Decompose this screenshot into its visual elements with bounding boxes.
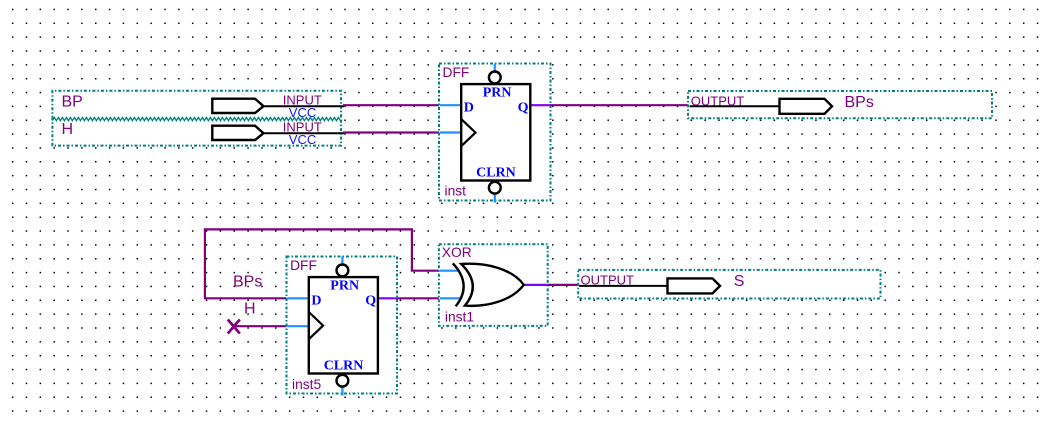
svg-text:VCC: VCC [289,132,316,147]
output pin arrow symbol [668,278,721,293]
Q pin stub [378,297,397,299]
top input pin stub [440,270,460,272]
pin lead line [690,105,780,107]
svg-text:S: S [734,273,745,290]
svg-text:XOR: XOR [442,245,472,260]
wire H dangling segment to inst5 clock [234,325,287,327]
input pin arrow symbol [212,99,263,113]
XOR input back arc [453,263,464,306]
svg-text:DFF: DFF [443,65,470,80]
svg-text:inst1: inst1 [445,310,474,325]
output pin arrow symbol [780,99,833,114]
svg-text:Q: Q [365,294,376,309]
input pin H [52,117,344,147]
clock pin stub [440,131,461,133]
output pin S [578,270,880,299]
svg-text:Q: Q [518,101,529,116]
svg-text:BPs: BPs [233,274,262,291]
clock pin stub [288,325,309,327]
clear bubble [337,375,349,387]
PRN pin stub [341,257,343,265]
CLRN pin stub [341,387,343,396]
Q pin stub [530,104,550,106]
svg-text:D: D [311,294,321,309]
wire BP to DFF inst D input [343,104,440,106]
svg-text:D: D [464,101,474,116]
CLRN pin stub [494,194,496,203]
svg-text:CLRN: CLRN [324,358,364,373]
svg-text:PRN: PRN [483,85,512,100]
wire XOR output to pin S [548,284,579,286]
XOR gate inst1 [439,244,548,326]
svg-text:PRN: PRN [330,278,359,293]
output pin stub [524,284,548,286]
output pin BPs [688,91,992,118]
svg-text:H: H [62,121,74,138]
preset bubble [337,265,349,277]
wire H to DFF inst clock input [343,131,440,133]
D pin stub [440,104,461,106]
PRN pin stub [494,64,496,72]
svg-text:inst5: inst5 [292,377,321,392]
D flip-flop inst (DFF) [439,64,551,203]
input pin arrow symbol [212,126,263,140]
input pin BP [52,91,344,120]
flip-flop body [461,84,530,180]
clock edge triangle [309,312,323,339]
X marker at dangling wire end [228,320,240,334]
svg-text:H: H [244,301,256,318]
wire net BPs: feeds DFF inst5 D input and XOR top input [205,229,439,298]
flip-flop body [309,277,378,373]
pin lead line [579,285,668,287]
pin lead line [264,105,345,107]
bottom input pin stub [440,297,461,299]
svg-text:BPs: BPs [845,94,874,111]
svg-text:DFF: DFF [290,258,317,273]
clear bubble [489,182,501,194]
XOR gate body [461,264,524,306]
svg-text:BP: BP [62,94,83,111]
wire DFF inst Q to output pin BPs [551,104,690,106]
D pin stub [288,297,309,299]
svg-text:inst: inst [445,184,467,199]
pin lead line [264,132,345,134]
svg-text:CLRN: CLRN [476,165,516,180]
D flip-flop inst5 (DFF) [287,257,398,396]
preset bubble [489,72,501,84]
wire inst5 Q to XOR bottom input [397,297,439,299]
clock edge triangle [461,119,475,146]
